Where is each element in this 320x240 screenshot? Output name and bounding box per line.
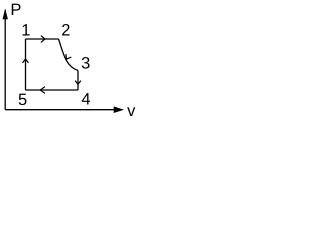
- process curve 2-3: [59, 39, 79, 71]
- arrowhead on curve 2-3: [66, 54, 71, 59]
- P axis arrowhead: [3, 8, 8, 19]
- arrowhead on line 4-5: [40, 87, 45, 94]
- P axis: [4, 10, 6, 110]
- v axis: [5, 109, 122, 111]
- process line 1-2: [26, 38, 59, 40]
- svg-text:P: P: [10, 1, 21, 19]
- process line 5-1: [25, 39, 27, 90]
- v axis arrowhead: [114, 106, 124, 113]
- svg-text:v: v: [127, 102, 136, 120]
- process line 4-5: [26, 89, 79, 91]
- svg-text:2: 2: [61, 21, 70, 39]
- process line 3-4: [77, 71, 79, 91]
- svg-text:1: 1: [21, 22, 30, 40]
- svg-text:5: 5: [18, 91, 27, 109]
- arrowhead on line 1-2: [41, 36, 45, 43]
- arrowhead on line 3-4: [75, 81, 81, 85]
- svg-text:4: 4: [81, 91, 90, 109]
- arrowhead on line 5-1: [23, 59, 29, 63]
- svg-text:3: 3: [81, 55, 90, 73]
